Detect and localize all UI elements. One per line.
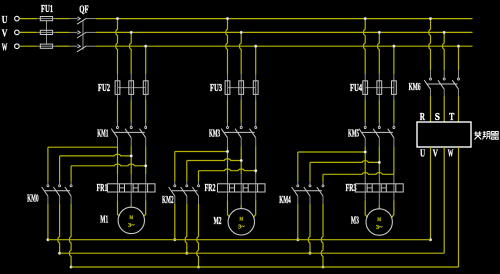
svg-text:3~: 3~ [128, 223, 135, 229]
contactor KM4 main contact pole 1 [297, 185, 299, 187]
node branch 1 tap dot on bus L1 (U) [116, 17, 119, 20]
VFD (inverter) box U1 [417, 122, 471, 147]
contactor KM1 main contact phase 2 [130, 127, 132, 129]
wire KM4 pole 1 down to bottom bus 1 [297, 196, 299, 204]
wire FR2 to motor M2 leads [227, 192, 229, 200]
wire KM6 pole 3 to VFD input T [458, 89, 460, 96]
svg-text:3~: 3~ [376, 225, 383, 231]
wire from KM2 pole 3 up-over to branch 2 node 3 [198, 171, 200, 182]
contactor KM3 link bar [224, 131, 254, 133]
svg-text:FU4: FU4 [350, 83, 363, 94]
wire KM1 contact to junction node phase 1 [117, 138, 119, 147]
wire from KM0 pole 1 up-over to branch 1 node 1 [47, 147, 49, 181]
wire KM3 contact to junction node phase 1 [227, 138, 229, 147]
contactor KM5 link bar [362, 131, 393, 133]
node KM2 pole 2 on bottom bus 2 [185, 252, 188, 255]
wire KM3 contact to junction node phase 3 [255, 138, 257, 147]
thermal relay FR3 heater box [355, 184, 403, 192]
wire branch 1 phase 2 from bus to fuse FU2 [129, 32, 131, 74]
circuit breaker QF link bar [82, 21, 84, 50]
wire FU1 to QF W phase [53, 45, 56, 47]
contactor KM3 main contact phase 2 [240, 127, 242, 129]
node branch 2 junction 3 [254, 169, 257, 172]
svg-text:M: M [129, 215, 133, 221]
svg-text:KM4: KM4 [279, 195, 291, 206]
wire KM1 contact to junction node phase 2 [130, 138, 132, 147]
contactor KM1 main contact phase 1 [117, 127, 119, 129]
wire VFD output U down to bottom bus 1 [430, 147, 432, 240]
wire fuse FU2 to contactor KM1 phase 2 [130, 94, 132, 99]
wire FR1 to motor M1 leads [117, 192, 119, 200]
contactor KM0 stub above contact pole 1 [47, 181, 49, 184]
wire KM5 contact to junction node phase 2 [378, 138, 380, 147]
contactor KM2 main contact pole 2 [186, 185, 188, 187]
motor M1 circle [118, 207, 144, 233]
node KM2 pole 3 on bottom bus 3 [197, 266, 200, 269]
contactor KM5 main contact phase 1 [364, 127, 366, 129]
node branch 2 tap dot on bus L1 (U) [226, 17, 229, 20]
contactor KM0 main contact pole 2 [59, 185, 61, 187]
wire fuse FU2 to contactor KM1 phase 1 [117, 94, 119, 99]
node VFD output U on bottom bus 1 [429, 238, 432, 241]
svg-text:V: V [2, 29, 8, 40]
wire fuse FU4 to contactor KM5 phase 3 [393, 94, 395, 99]
fuse FU1 element U phase [40, 18, 52, 20]
svg-text:KM1: KM1 [97, 129, 108, 140]
svg-text:V: V [433, 148, 438, 159]
wire KM5 contact to junction node phase 3 [393, 138, 395, 147]
node branch 1 tap dot on bus L2 (V) [130, 31, 133, 34]
contactor KM6 main contact pole 3 [458, 78, 460, 80]
wire FR3 to motor M3 leads [364, 192, 366, 200]
contactor KM1 link bar [114, 131, 144, 133]
svg-text:U: U [2, 15, 8, 26]
svg-text:W: W [2, 42, 8, 53]
contactor KM2 stub above contact pole 2 [186, 181, 188, 184]
contactor KM0 link bar [45, 190, 70, 192]
node branch 1 junction 2 [130, 155, 133, 158]
fuse FU4 link bar [365, 87, 394, 89]
wire VFD output V down to bottom bus 2 [443, 147, 445, 253]
breaker QF pole W: blade [77, 46, 87, 52]
fuse FU2 element phase 1 [117, 81, 119, 95]
node branch 3 junction 1 [364, 151, 367, 154]
wire from KM0 pole 2 up-over to branch 1 node 2 [59, 156, 61, 182]
wire branch 1 phase 1 from bus to fuse FU2 [116, 19, 118, 74]
wire from KM4 pole 1 up-over to branch 3 node 1 [297, 152, 299, 181]
wire from KM4 pole 3 up-over to branch 3 node 3 [322, 174, 324, 181]
svg-text:U: U [420, 148, 425, 159]
svg-text:M1: M1 [100, 215, 108, 226]
svg-text:KM6: KM6 [409, 82, 421, 93]
svg-text:FR2: FR2 [205, 183, 216, 194]
wire branch 3 phase 3 from bus to fuse FU4 [393, 46, 395, 74]
wire KM2 pole 3 down to bottom bus 3 [198, 196, 200, 204]
wire QF pole W to bus [87, 45, 97, 47]
wire KM6 pole 1 to VFD input R [430, 89, 432, 96]
fuse FU2 link bar [118, 87, 146, 89]
breaker QF pole U: arrow contact [77, 17, 80, 20]
top bus L3 (W) [96, 45, 472, 47]
wire branch 1 phase 3 from bus to fuse FU2 [145, 46, 147, 74]
contactor KM4 stub above contact pole 2 [309, 181, 311, 184]
wire fuse FU3 to contactor KM3 phase 2 [240, 94, 242, 99]
bottom bus VFD phase U [48, 239, 431, 241]
wire from KM4 pole 2 up-over to branch 3 node 2 [309, 162, 311, 181]
motor M2 circle [228, 209, 254, 235]
node branch 1 junction 3 [144, 164, 147, 167]
breaker QF pole W: arrow contact [77, 45, 80, 48]
wire VFD feed phase 3 from bus to KM6 [458, 46, 460, 70]
contactor KM4 stub above contact pole 1 [297, 181, 299, 184]
breaker QF pole V: blade [77, 32, 87, 38]
top bus L1 (U) [96, 18, 472, 20]
node branch 1 tap dot on bus L3 (W) [144, 45, 147, 48]
node branch 2 junction 1 [226, 150, 229, 153]
contactor KM3 main contact phase 1 [227, 127, 229, 129]
fuse FU3 element phase 2 [240, 81, 242, 95]
contactor KM0 main contact pole 1 [47, 185, 49, 187]
wire from KM2 pole 2 up-over to branch 2 node 2 [186, 161, 188, 182]
contactor KM4 main contact pole 2 [309, 185, 311, 187]
svg-text:3~: 3~ [238, 225, 245, 231]
svg-text:QF: QF [79, 5, 88, 16]
wire fuse FU3 to contactor KM3 phase 1 [227, 94, 229, 99]
VFD chinese label bian-pin-qi (inverter) [474, 131, 481, 139]
fuse FU4 element phase 1 [364, 81, 366, 95]
svg-text:M: M [239, 217, 243, 223]
node branch 2 junction 2 [240, 159, 243, 162]
wire terminal W to FU1 [19, 45, 37, 47]
svg-text:FU1: FU1 [41, 4, 53, 15]
wire QF pole U to bus [87, 18, 97, 20]
svg-text:M2: M2 [214, 216, 222, 227]
terminal U circle [15, 16, 20, 21]
wire KM0 pole 2 down to bottom bus 2 [59, 196, 61, 204]
node KM2 pole 1 on bottom bus 1 [173, 238, 176, 241]
wire VFD feed phase 1 from bus to KM6 [429, 19, 431, 71]
node KM0 pole 3 on bottom bus 3 [70, 266, 73, 269]
fuse FU1 link bar [46, 21, 48, 44]
contactor KM2 main contact pole 1 [174, 185, 176, 187]
fuse FU3 element phase 1 [227, 81, 229, 95]
contactor KM6 link bar [427, 83, 457, 85]
node branch 3 tap dot on bus L1 (U) [364, 17, 367, 20]
terminal V circle [15, 30, 20, 35]
thermal relay FR2 heater box [218, 184, 266, 192]
terminal W circle [15, 44, 20, 49]
bottom bus VFD phase W [71, 266, 458, 268]
breaker QF pole U: blade [77, 18, 87, 24]
fuse FU2 element phase 3 [145, 81, 147, 95]
contactor KM0 stub above contact pole 2 [59, 181, 61, 184]
wire KM4 pole 2 down to bottom bus 2 [309, 196, 311, 204]
contactor KM4 link bar [295, 190, 322, 192]
wire fuse FU2 to contactor KM1 phase 3 [145, 94, 147, 99]
fuse FU3 link bar [228, 87, 256, 89]
bottom bus VFD phase V [60, 252, 445, 254]
contactor KM3 main contact phase 3 [255, 127, 257, 129]
node KM4 pole 3 on bottom bus 3 [322, 266, 325, 269]
wire FU1 to QF V phase [53, 31, 56, 33]
wire branch 2 phase 2 from bus to fuse FU3 [239, 32, 241, 74]
top bus L2 (V) [96, 31, 472, 33]
wire branch 3 phase 1 from bus to fuse FU4 [363, 19, 365, 74]
wire fuse FU4 to contactor KM5 phase 1 [364, 94, 366, 99]
fuse FU4 element phase 3 [393, 81, 395, 95]
svg-text:KM3: KM3 [209, 129, 220, 140]
contactor KM2 stub above contact pole 1 [174, 181, 176, 184]
contactor KM6 main contact pole 1 [430, 78, 432, 80]
wire FU1 to QF U phase [53, 18, 56, 20]
node VFD feed tap dot on bus L3 (W) [457, 45, 460, 48]
node VFD feed tap dot on bus L2 (V) [443, 31, 446, 34]
contactor KM2 stub above contact pole 3 [198, 181, 200, 184]
wire KM5 contact to junction node phase 1 [364, 138, 366, 147]
wire from KM0 pole 3 up-over to branch 1 node 3 [70, 166, 72, 182]
svg-text:FR1: FR1 [97, 183, 108, 194]
fuse FU4 element phase 2 [378, 81, 380, 95]
contactor KM1 main contact phase 3 [145, 127, 147, 129]
svg-text:KM0: KM0 [27, 194, 39, 205]
thermal relay FR1 heater box [108, 184, 156, 192]
wire terminal U to FU1 [19, 18, 37, 20]
node KM0 pole 2 on bottom bus 2 [58, 252, 61, 255]
node VFD feed tap dot on bus L1 (U) [429, 17, 432, 20]
fuse FU1 element V phase [40, 31, 52, 33]
breaker QF pole V: arrow contact [77, 31, 80, 34]
wire from KM2 pole 1 up-over to branch 2 node 1 [174, 152, 176, 182]
wire fuse FU3 to contactor KM3 phase 3 [255, 94, 257, 99]
svg-text:W: W [448, 148, 454, 159]
node KM4 pole 1 on bottom bus 1 [296, 238, 299, 241]
wire VFD output W down to bottom bus 3 [458, 147, 460, 267]
node branch 3 tap dot on bus L3 (W) [393, 45, 396, 48]
wire KM2 pole 2 down to bottom bus 2 [186, 196, 188, 204]
wire KM3 contact to junction node phase 2 [240, 138, 242, 147]
contactor KM4 main contact pole 3 [322, 185, 324, 187]
contactor KM0 main contact pole 3 [70, 185, 72, 187]
wire branch 2 phase 1 from bus to fuse FU3 [226, 19, 228, 74]
contactor KM5 main contact phase 2 [378, 127, 380, 129]
fuse FU1 element W phase [40, 45, 52, 47]
wire terminal V to FU1 [19, 31, 37, 33]
contactor KM0 stub above contact pole 3 [70, 181, 72, 184]
wire fuse FU4 to contactor KM5 phase 2 [378, 94, 380, 99]
svg-text:KM5: KM5 [348, 129, 359, 140]
contactor KM4 stub above contact pole 3 [322, 181, 324, 184]
node KM4 pole 2 on bottom bus 2 [309, 252, 312, 255]
contactor KM2 link bar [172, 190, 198, 192]
svg-text:FU2: FU2 [98, 83, 110, 94]
wire branch 3 phase 2 from bus to fuse FU4 [378, 32, 380, 74]
fuse FU3 element phase 3 [255, 81, 257, 95]
wire KM0 pole 1 down to bottom bus 1 [47, 196, 49, 204]
motor M3 circle [366, 209, 392, 235]
contactor KM2 main contact pole 3 [198, 185, 200, 187]
wire KM6 pole 2 to VFD input S [443, 89, 445, 96]
node branch 2 tap dot on bus L3 (W) [254, 45, 257, 48]
wire QF pole V to bus [87, 31, 97, 33]
svg-text:M3: M3 [351, 215, 359, 226]
fuse FU2 element phase 2 [130, 81, 132, 95]
svg-text:FU3: FU3 [210, 83, 222, 94]
wire KM1 contact to junction node phase 3 [145, 138, 147, 147]
wire branch 2 phase 3 from bus to fuse FU3 [255, 46, 257, 74]
node branch 3 tap dot on bus L2 (V) [378, 31, 381, 34]
contactor KM6 main contact pole 2 [443, 78, 445, 80]
wire KM2 pole 1 down to bottom bus 1 [174, 196, 176, 204]
wire KM4 pole 3 down to bottom bus 3 [322, 196, 324, 204]
wire VFD feed phase 2 from bus to KM6 [442, 32, 444, 70]
node KM0 pole 1 on bottom bus 1 [47, 238, 50, 241]
svg-text:M: M [377, 217, 381, 223]
svg-text:KM2: KM2 [162, 195, 174, 206]
wire KM0 pole 3 down to bottom bus 3 [70, 196, 72, 204]
node branch 3 junction 2 [378, 161, 381, 164]
contactor KM5 main contact phase 3 [393, 127, 395, 129]
node branch 2 tap dot on bus L2 (V) [240, 31, 243, 34]
